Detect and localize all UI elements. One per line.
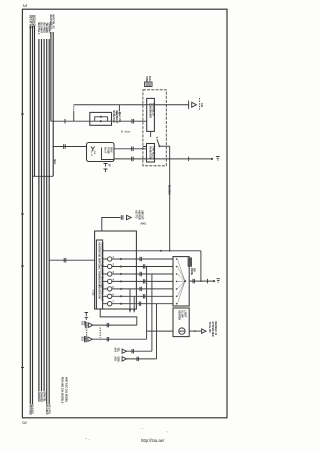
lamp feed wire y331.1	[147, 330, 173, 332]
svg-text:GRN/YEL: GRN/YEL	[42, 392, 44, 403]
svg-text:BLU/BLK: BLU/BLK	[168, 185, 170, 196]
svg-text:10A: 10A	[93, 151, 96, 155]
svg-text:A001: A001	[141, 223, 147, 226]
pin row 1	[103, 257, 173, 261]
svg-text:BLK: BLK	[53, 160, 55, 165]
ticks x65 y260.2	[63, 258, 65, 263]
A4 ticks	[136, 357, 138, 361]
svg-text:YEL: YEL	[116, 348, 118, 353]
drop wire row7 to arrow A4	[156, 304, 158, 359]
arrow A1 wire y325.1	[93, 324, 137, 326]
wire jog W3 to vertical x53.2	[33, 175, 54, 177]
bus wire W2	[31, 15, 33, 415]
fuse label text block	[115, 112, 121, 118]
svg-text:HEATER FAN SWITCH: HEATER FAN SWITCH	[98, 243, 101, 268]
svg-text:BLU/YEL: BLU/YEL	[47, 405, 49, 416]
relay no2 text	[148, 147, 154, 160]
bus wire W9	[49, 15, 52, 122]
wire B2 to condenser relay y148.8	[114, 148, 147, 150]
relay contact arm arrow	[150, 131, 152, 137]
arrow A4 wire y358.9	[127, 358, 157, 360]
svg-text:BLU: BLU	[83, 321, 85, 326]
svg-text:FAN: FAN	[148, 76, 151, 81]
A3 ticks	[131, 349, 133, 353]
svg-text:ILLUM: ILLUM	[181, 311, 183, 318]
long vertical wire x169.7	[169, 146, 171, 251]
svg-text:CIRCUIT: CIRCUIT	[140, 210, 142, 220]
lamp symbol	[179, 328, 185, 334]
border tick y266	[21, 265, 24, 267]
relay R1 arrowhead	[100, 116, 103, 118]
fuse loop top wire to condenser relay	[74, 104, 147, 106]
A2 triangle	[88, 337, 92, 341]
svg-text:GRN: GRN	[116, 357, 118, 362]
svg-text:BOX: BOX	[110, 148, 112, 153]
svg-text:A24: A24	[114, 348, 117, 353]
wire: box2 feed y146.5	[53, 146, 86, 148]
heater fan switch box	[173, 257, 189, 306]
arrow A3 wire y351.2	[127, 350, 152, 352]
svg-text:FUNCTION CONTROL: FUNCTION CONTROL	[101, 243, 103, 268]
relay R1 internal contact	[95, 117, 108, 121]
wire bus to connector y260.2	[49, 259, 94, 261]
svg-text:HOT IN ON: HOT IN ON	[33, 15, 35, 27]
border tick y114	[21, 113, 24, 115]
connector ticks x64 on y146.5	[63, 144, 65, 149]
drop wire row2 to lamp	[146, 267, 148, 340]
A1 label	[81, 321, 86, 326]
svg-text:3: 3	[21, 4, 27, 7]
drop wire row6 down-arrow	[133, 296, 136, 313]
svg-text:YEL/GRN: YEL/GRN	[45, 23, 47, 34]
relay R1 label text	[112, 111, 121, 124]
svg-text:RADIATOR: RADIATOR	[148, 147, 151, 159]
svg-text:CONDENSER: CONDENSER	[149, 103, 151, 118]
off-page arrow mid y217.5	[102, 210, 143, 231]
B2 internal sub-box right	[102, 148, 115, 160]
connector tick x65 on y121.2	[64, 119, 66, 124]
ticks on pole wire	[192, 279, 194, 283]
A3 triangle	[122, 349, 126, 353]
svg-text:B. fuse: B. fuse	[121, 130, 131, 134]
junction with drop from y250.8	[200, 280, 202, 282]
connector ticks x132 on y158.9	[131, 157, 133, 162]
svg-text:~ .,: ~ .,	[85, 437, 90, 441]
bus wire W10	[51, 15, 54, 177]
svg-text:FUSE: FUSE	[107, 148, 109, 155]
dashed link x86.7	[86, 330, 88, 337]
svg-text:49ST EXC CAL MODEL: 49ST EXC CAL MODEL	[65, 377, 68, 403]
pin row 2	[103, 264, 173, 268]
svg-text:BLU/RED: BLU/RED	[42, 23, 44, 34]
strip text	[98, 243, 103, 303]
relay box R1 outline	[90, 112, 112, 125]
ground wire y158.9	[155, 158, 213, 160]
svg-text:.,: .,	[166, 429, 168, 433]
svg-text:HEATER: HEATER	[178, 311, 181, 321]
bus wire W3	[33, 15, 35, 176]
off-page arrow top right y104.75	[189, 98, 204, 111]
wire through relay2 y158.9	[147, 158, 155, 160]
lamp arrow label block	[208, 322, 216, 337]
svg-text:BLK/YEL 1: BLK/YEL 1	[37, 23, 39, 36]
A3 label	[114, 348, 119, 353]
A1 triangle	[89, 323, 93, 327]
off-page arrow lamp	[202, 329, 206, 333]
A1 ticks	[106, 323, 108, 327]
connector ticks x132 on y148.8	[131, 147, 133, 152]
svg-text:HEATER: HEATER	[137, 210, 140, 220]
svg-text:A23: A23	[81, 337, 84, 342]
pin row 4	[103, 278, 173, 283]
pin row 5	[103, 287, 173, 291]
switch pole dot	[184, 280, 186, 282]
ground dot	[211, 158, 213, 160]
bus wire W5	[40, 23, 42, 403]
svg-text:3: 3	[21, 421, 27, 424]
svg-text:BLU/BLK: BLU/BLK	[45, 405, 47, 416]
svg-text:http://tna.ae/: http://tna.ae/	[141, 438, 165, 443]
svg-text:MODE: MODE	[190, 268, 192, 275]
bus wire W7	[45, 23, 47, 416]
relay R1 coil dot	[100, 120, 102, 122]
tick x207.5	[207, 279, 209, 283]
svg-text:No.4: No.4	[104, 148, 107, 154]
connector strip	[96, 240, 102, 309]
switch pin dots and diagonals	[176, 258, 185, 304]
relay R1 wire through	[90, 120, 112, 122]
svg-text:RED: RED	[83, 337, 85, 342]
svg-text:WHT/YEL AC: WHT/YEL AC	[51, 15, 54, 30]
bus wire W4	[37, 23, 39, 403]
svg-text:FED AND CAL MODELS: FED AND CAL MODELS	[61, 377, 64, 404]
fuse branch down x119.4	[118, 105, 120, 112]
bus wire W8	[47, 23, 49, 416]
svg-text:A/C THERMOSTAT: A/C THERMOSTAT	[98, 266, 101, 287]
pin row 6	[103, 294, 173, 298]
svg-text:GRN/RED: GRN/RED	[40, 392, 42, 403]
end dot	[213, 280, 215, 282]
junction dot relay arm	[159, 145, 161, 147]
wire into relay2 y146.5	[143, 146, 147, 148]
connector pin marks above A1	[85, 313, 89, 320]
border tick y367	[21, 367, 24, 369]
junction x169.7	[169, 250, 171, 252]
corner down to switch pole	[200, 251, 202, 281]
pin row 3	[103, 272, 173, 276]
lamp box	[173, 308, 189, 337]
svg-text:CONTROL UNIT: CONTROL UNIT	[101, 284, 103, 302]
fuse loop left leg	[73, 112, 75, 121]
svg-text:A25: A25	[114, 357, 117, 362]
assembly label box above	[145, 82, 152, 87]
A2 label	[81, 337, 86, 342]
svg-text:HEATER SW: HEATER SW	[98, 285, 101, 300]
svg-text:WHT/BLK: WHT/BLK	[29, 405, 31, 416]
lamp right wire	[189, 330, 201, 332]
svg-text:SYSTEM RED: SYSTEM RED	[211, 322, 213, 337]
B2 connector pins below	[104, 164, 110, 173]
switch connector hatch label	[188, 257, 195, 275]
svg-text:BLK/YEL: BLK/YEL	[31, 405, 33, 416]
A2 bars	[84, 336, 86, 342]
lamp text	[178, 311, 186, 321]
svg-text:A17 TO: A17 TO	[135, 210, 138, 218]
fuse box B2 rounded outline	[87, 143, 115, 162]
svg-text:FAN RELAY: FAN RELAY	[151, 147, 154, 160]
B2 internal fuse symbol left	[91, 147, 95, 152]
svg-text:A21: A21	[200, 103, 203, 108]
relay inner text	[149, 103, 155, 118]
svg-text:RED/BLK 12: RED/BLK 12	[214, 322, 216, 336]
ground symbol pole	[217, 279, 221, 283]
top pin wire y250.8	[103, 250, 201, 252]
A4 label	[114, 357, 119, 362]
bus wire W1	[29, 15, 32, 416]
svg-text:GRN/BLK: GRN/BLK	[37, 392, 39, 403]
bus wire W6	[42, 23, 44, 403]
bottom label block FED/CAL	[61, 377, 68, 404]
svg-text:BLU/WHT: BLU/WHT	[40, 23, 42, 34]
wire: relay feed y121.2	[51, 120, 90, 122]
svg-text:A22: A22	[81, 321, 84, 326]
relay no2 inner box	[147, 144, 155, 163]
dashed link x100.2	[99, 328, 101, 339]
ground symbol G401	[216, 157, 220, 161]
A4 triangle	[122, 357, 126, 361]
svg-text:LIGHT: LIGHT	[184, 311, 186, 319]
svg-text:TO ILLUM: TO ILLUM	[208, 322, 210, 333]
svg-text:C552: C552	[145, 76, 147, 82]
svg-text:No.15: No.15	[90, 151, 92, 157]
wire through relay top y104.75	[147, 104, 155, 106]
pin row 7	[103, 302, 173, 306]
svg-text:C721: C721	[92, 290, 94, 296]
connector tick x132.5 on y121.2	[131, 119, 133, 124]
condenser fan relay inner box	[147, 98, 155, 131]
svg-text:HOT IN RUN: HOT IN RUN	[31, 15, 33, 29]
svg-text:FAN RELAY: FAN RELAY	[115, 111, 118, 124]
A2 ticks	[106, 337, 108, 341]
condenser fan relay assembly dashed box	[143, 90, 166, 166]
wire B2 to condenser relay y158.9	[114, 158, 147, 160]
tick on ground wire	[188, 157, 190, 161]
drop wire row5 down-arrow	[129, 289, 132, 313]
strip bottom wire	[100, 309, 137, 325]
switch pole output wire y281.1	[189, 280, 214, 282]
border tick y214	[21, 213, 24, 215]
connector box outline	[95, 231, 137, 309]
A1 bars	[84, 322, 86, 328]
wire from arm dot to vertical	[160, 145, 170, 147]
tick x161 y250.8	[160, 250, 162, 252]
wire R1 to condenser relay y121.2	[112, 120, 147, 122]
junction dot on W10	[52, 146, 54, 148]
drop wire row3 to arrow A3	[151, 274, 153, 351]
border frame	[22, 9, 227, 418]
arrow A2 wire y339.2	[92, 338, 146, 340]
